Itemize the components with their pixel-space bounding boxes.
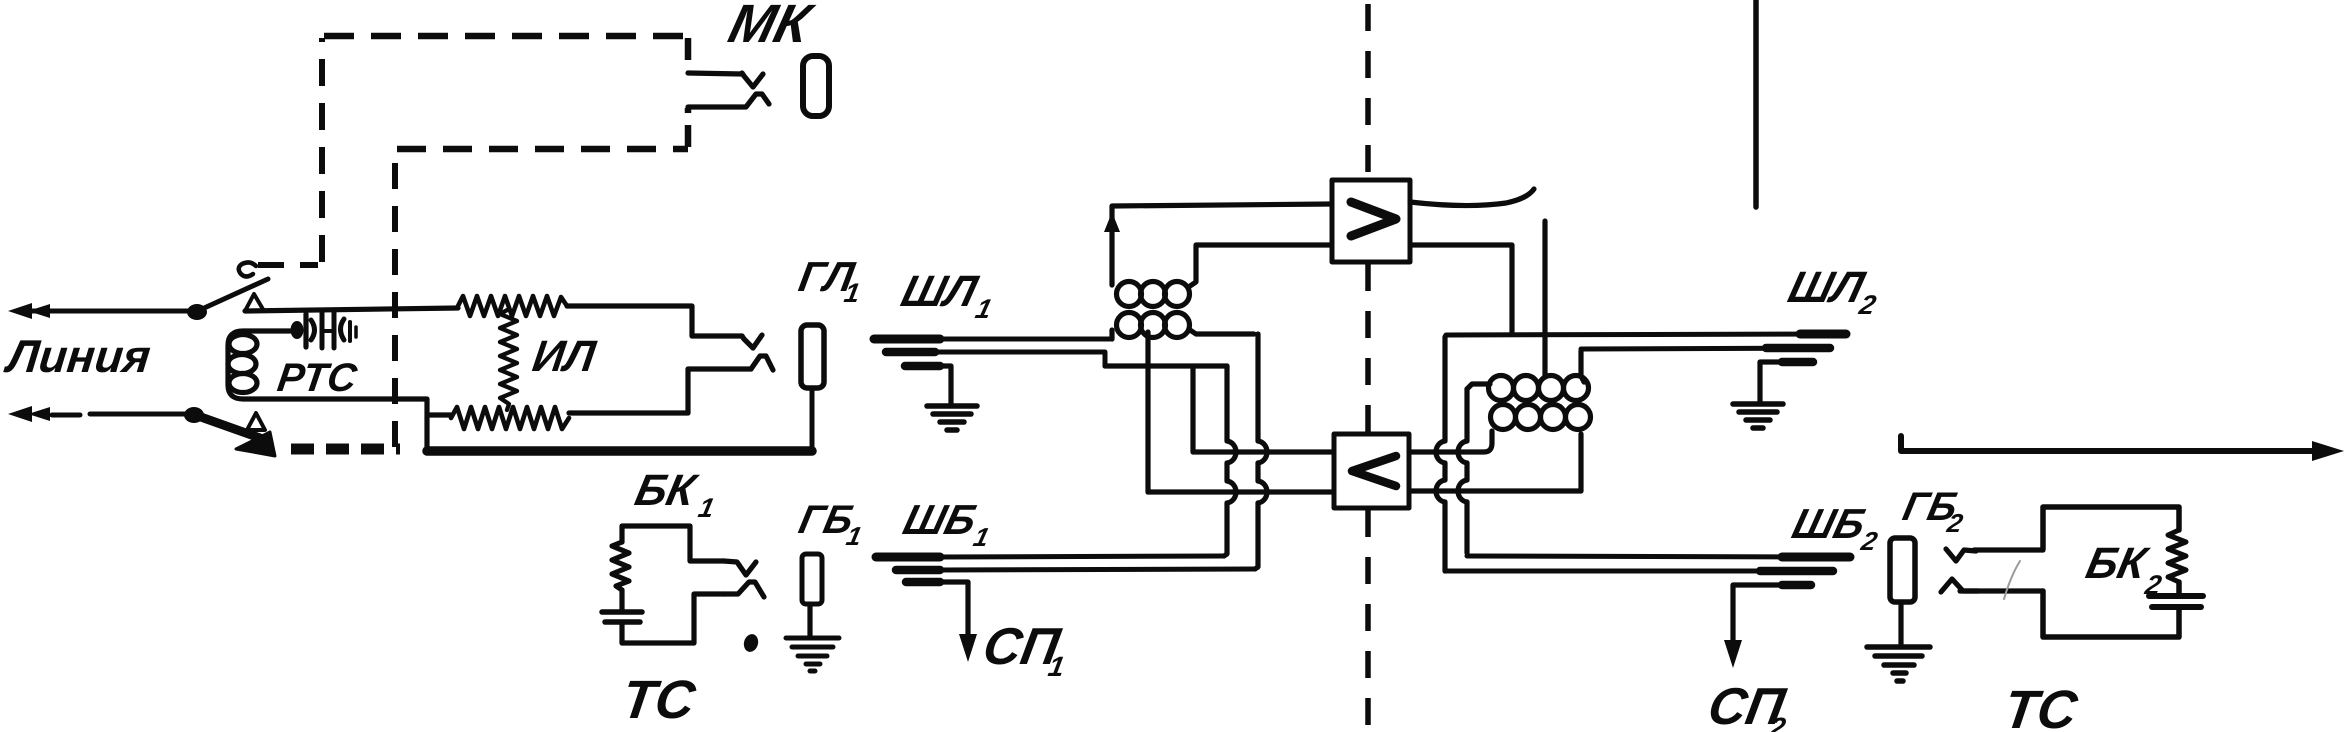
wire ШЛ2 ground stub: [1760, 362, 1784, 402]
capacitor БК2 plate top: [2149, 593, 2203, 599]
wire ШЛ1 ground stub: [938, 366, 951, 404]
wire T2 top winding left end to x1467: [1467, 384, 1490, 389]
svg-text:ШЛ: ШЛ: [1784, 264, 1871, 312]
wire frame corner to ШЛ2 wire1: [1445, 334, 1844, 337]
wire БК2 upper tab: [1974, 547, 2043, 552]
wire T2 top right end up to ШЛ2 wire2: [1581, 351, 1584, 382]
wire ШЛ1 conductor 1 bold head: [874, 335, 940, 344]
wire vertical truncated top right: [1753, 0, 1759, 207]
hook contact ГЛ1 lower: [751, 356, 773, 370]
wire A1 output truncated curve: [1410, 189, 1534, 206]
wire ШБ1 СП1 stub: [938, 582, 968, 642]
wire T2 centre tap vertical from above: [1542, 221, 1547, 377]
resistor ИЛ vertical: [500, 309, 517, 410]
wire ШБ2 conductor 2: [1445, 569, 1790, 574]
wire branch down to lower amp input upper: [1193, 366, 1334, 452]
wire ШБ2 conductor 1: [1467, 556, 1815, 557]
faint scratch mark: [2004, 561, 2020, 599]
wire T1 primary left end joins ШЛ1 wire1: [1109, 330, 1114, 339]
capacitor БК2 plate bottom: [2152, 604, 2201, 610]
hook contact MK upper: [742, 73, 763, 87]
wire ГБ1 lead to ground: [807, 604, 812, 636]
arrow line lower left double arrowhead: [8, 406, 50, 422]
wire vertical x1227 with hops (ШБ1-1 riser): [1224, 366, 1236, 556]
arrester H left bar: [320, 311, 325, 348]
wire ШЛ1 ground stub bold: [905, 362, 940, 371]
arrow line upper left double arrowhead: [8, 303, 50, 319]
wire bold bus to ГЛ1 sleeve: [427, 446, 812, 456]
transformer T2 primary bottom winding: [1491, 405, 1516, 430]
wire T1 primary right end to vertical x1258: [1190, 330, 1254, 334]
wire ШЛ2 conductor 1 bold tail: [1800, 330, 1846, 339]
resistor БК2 (in right edge): [2168, 530, 2186, 582]
ground under ШЛ2: [1733, 404, 1783, 428]
wire centre tap to lower amp input lower: [1148, 489, 1334, 494]
hook contact ГЛ1 upper: [742, 335, 762, 348]
wire line lower dash segment: [52, 413, 80, 418]
wire line upper conductor: [22, 309, 190, 314]
resistor ИЛ top: [458, 296, 567, 316]
box БК1 outline with tabs: [622, 526, 724, 643]
wire dashed centre dividing line (lower): [1365, 510, 1371, 732]
ground under ГБ2: [1867, 647, 1930, 681]
wire dashed corner up to MK lead2: [685, 108, 692, 147]
relay РТС outline: [228, 331, 424, 399]
arrow СП2 head: [1724, 640, 1742, 668]
wire ШЛ2 ground stub bold: [1782, 358, 1813, 367]
wire ШБ1 conductor 1 bold head: [876, 553, 940, 562]
wire dashed corner down to MK lead1: [685, 38, 692, 72]
wire vertical x1445 with hops (frame to ШБ2-2): [1436, 337, 1445, 571]
wire БК2 lower tab: [1960, 588, 2043, 593]
hook contact БК1 lower: [724, 582, 764, 597]
wire ШБ2 СП2 stub bold: [1782, 581, 1811, 590]
resistor БК1 (in left edge): [612, 542, 629, 590]
wire ШЛ1 conductor 2 bold head: [886, 348, 935, 357]
wire dashed vertical 1: [319, 38, 325, 262]
arrester tiny mark right: [354, 327, 358, 337]
arrester symbol at РТС: dot: [291, 321, 304, 339]
contact triangle lower switch (outline): [247, 413, 265, 430]
amplifier box A2 (right-to-left): [1334, 434, 1409, 508]
wire vertical x1258 with hops (ШБ1-2 riser): [1255, 334, 1267, 569]
hook contact MK lower: [746, 94, 769, 107]
wire bottom resistor right lead to ГЛ1 lower hook: [569, 369, 751, 413]
wire top conductor to IL: [245, 308, 458, 311]
wire dashed from upper contact short horizontal: [258, 262, 318, 268]
amplifier box A1 (left-to-right): [1332, 180, 1410, 262]
arrester bar thin left: [303, 314, 308, 347]
symbol chevron A2: [1352, 456, 1396, 486]
svg-text:ШБ: ШБ: [1788, 501, 1871, 548]
wire A2 right stub upper to T2 primary left: [1409, 431, 1492, 452]
junction dot upper switch pivot: [187, 304, 207, 320]
wire dashed vertical 2: [392, 151, 398, 447]
wire ШЛ1 conductor 1: [938, 337, 1110, 342]
ground under ГБ1: [786, 638, 839, 671]
wire dashed horizontal 1 (top): [324, 33, 688, 40]
wire ГБ2 lead to ground: [1898, 602, 1903, 644]
coil РТС loop1: [229, 335, 257, 354]
wire long outgoing right with arrow: [1901, 436, 2320, 451]
arrow outgoing right head: [2312, 441, 2344, 461]
ground under ШЛ1: [927, 406, 977, 430]
wire MK lead1: [688, 73, 742, 74]
wire ШЛ1 conductor 2: [933, 352, 1105, 366]
wire bottom resistor left lead: [428, 412, 451, 417]
resistor ИЛ bottom: [451, 407, 569, 429]
wire ШБ2 conductor 2 bold tail: [1760, 567, 1833, 576]
wire vertical x1467 with hops (T2 top left to ШБ2-1): [1458, 389, 1467, 553]
wire A1 output to T2: [1410, 245, 1512, 332]
wire MK lead2: [688, 104, 745, 109]
plug MK body: [803, 56, 829, 116]
arrester arc right: [341, 319, 345, 340]
wire ШЛ2 conductor 2 bold tail: [1766, 344, 1830, 353]
svg-text:Линия: Линия: [2, 330, 153, 382]
arrester small bar right: [348, 322, 352, 341]
arrow small up on T1 left vertical: [1104, 212, 1120, 232]
svg-text:ШБ: ШБ: [899, 497, 982, 544]
svg-text:РТС: РТС: [275, 355, 361, 400]
plug ГБ2 body: [1890, 538, 1915, 602]
wire T1 centre tap down: [1145, 332, 1150, 492]
wire ШБ1 conductor 1: [938, 556, 1224, 557]
wire РТС bottom corner down to bold bus: [424, 399, 427, 450]
wire ШБ2 conductor 1 bold tail: [1782, 553, 1850, 562]
wire ШБ1 conductor 2: [938, 569, 1255, 570]
wire T1 secondary left end up to amp input: [1112, 204, 1332, 285]
wire horizontal ШЛ1-2 branch: [1105, 363, 1227, 368]
capacitor БК1 plate bottom: [605, 619, 640, 625]
switch blade K1 upper: [202, 279, 268, 309]
wire ШБ1 СП1 stub bold: [906, 578, 940, 587]
contact triangle upper switch (closed contact): [245, 294, 264, 311]
wire ГЛ1 sleeve lead: [810, 388, 815, 448]
svg-text:ИЛ: ИЛ: [530, 332, 600, 381]
junction dot lower switch pivot: [184, 407, 204, 423]
coil РТС loop2: [228, 355, 256, 374]
transformer T2 secondary top winding: [1489, 376, 1514, 401]
svg-text:ТС: ТС: [618, 670, 699, 730]
wire ШБ2 СП2 stub: [1733, 585, 1784, 648]
hook contact БК2 lower: [1941, 579, 1978, 592]
contact curl upper (open contact to MK circuit): [239, 262, 256, 276]
wire line lower conductor: [90, 412, 186, 417]
wire T1 secondary right end to amp input 2: [1190, 245, 1332, 286]
arrow СП1 head: [959, 634, 977, 662]
wire dashed horizontal 2: [397, 146, 688, 153]
wire ШЛ2 conductor 2: [1581, 348, 1828, 349]
plug ГЛ1 body: [801, 325, 824, 388]
hook contact БК1 upper: [724, 561, 756, 575]
ink blob: [742, 632, 760, 653]
arrester arc left: [311, 320, 315, 340]
arrester H right bar: [332, 311, 337, 348]
contact triangle lower switch closed (solid blob): [236, 432, 275, 456]
wire dashed centre dividing line (middle): [1365, 264, 1371, 432]
transformer T1 secondary top winding: [1117, 282, 1142, 307]
hook contact БК2 upper: [1946, 549, 1976, 561]
wire A2 right stub lower to T2 primary right: [1409, 434, 1581, 491]
wire dashed centre dividing line (upper): [1365, 4, 1371, 178]
wire bold dashed from lower switch to MK circuit: [291, 444, 400, 455]
svg-text:ШЛ: ШЛ: [897, 268, 984, 316]
svg-text:ТС: ТС: [2000, 680, 2081, 732]
capacitor БК1 plate top: [602, 609, 642, 615]
switch blade K2 lower (bold): [198, 416, 260, 438]
symbol chevron A1: [1351, 202, 1396, 236]
coil РТС loop3: [229, 374, 257, 393]
transformer T1 primary bottom winding: [1117, 313, 1142, 338]
wire ШБ1 conductor 2 bold head: [896, 566, 940, 575]
wire from top resistor to ГЛ1 hook: [567, 306, 742, 336]
arrester H bridge: [322, 329, 334, 333]
box БК2 outline: [2043, 507, 2179, 637]
plug ГБ1 body: [802, 554, 822, 604]
